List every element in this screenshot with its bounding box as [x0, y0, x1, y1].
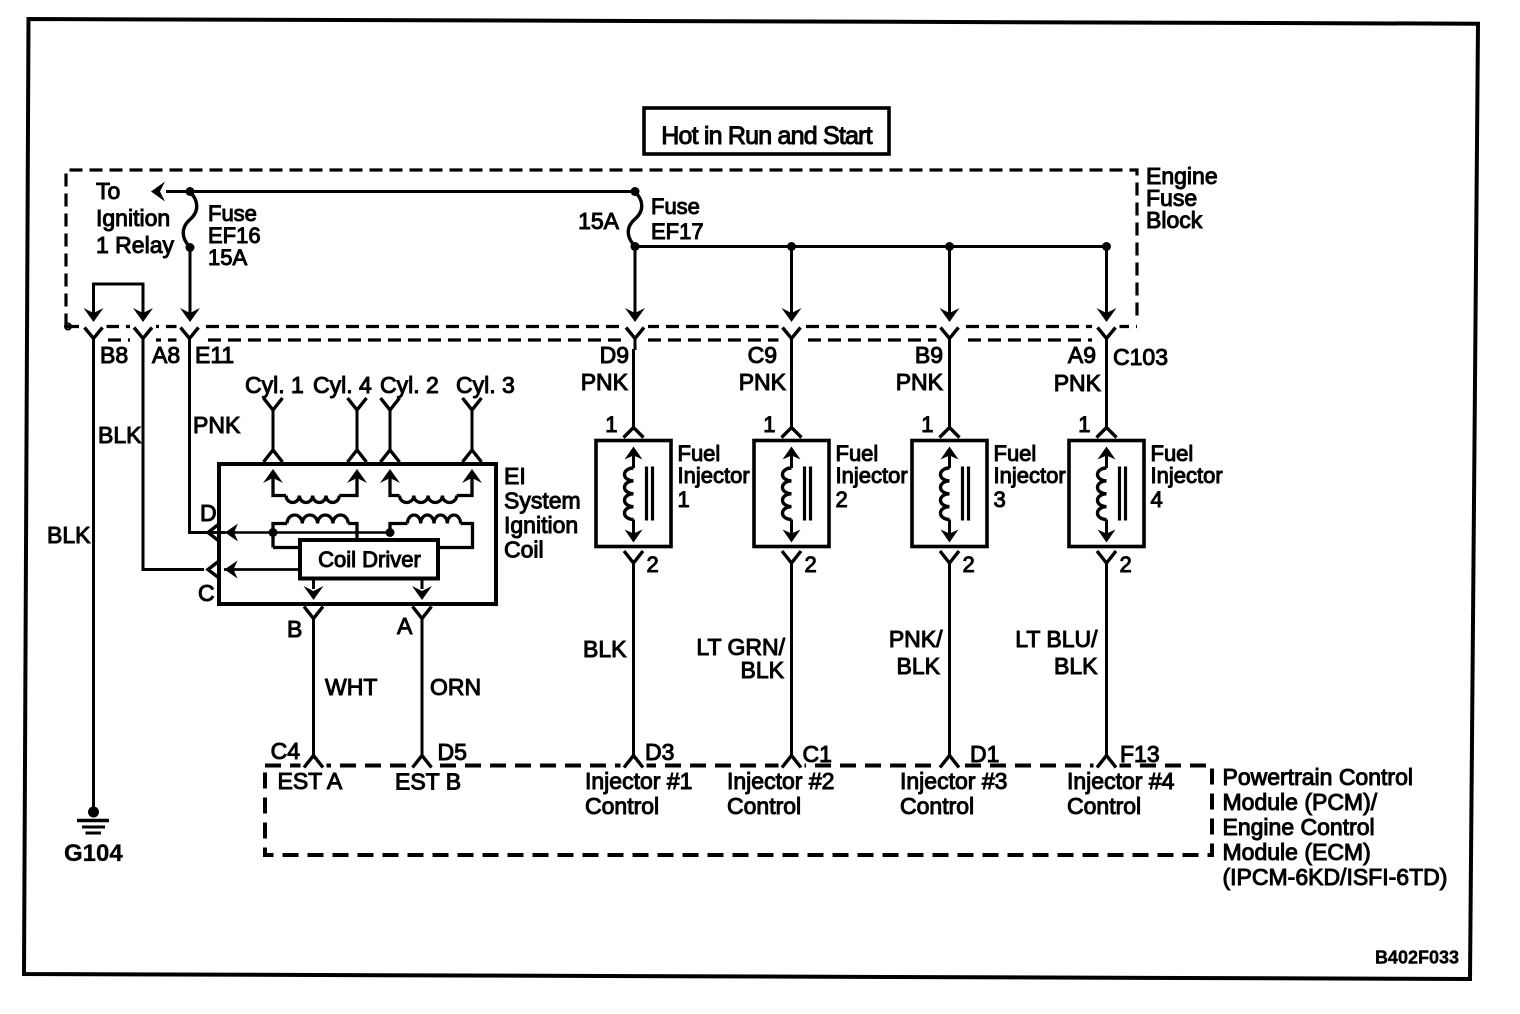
label Powertrain Control Module	[1223, 764, 1448, 890]
svg-text:B9: B9	[915, 342, 943, 368]
svg-text:Injector: Injector	[836, 463, 908, 488]
wire drop D9	[625, 247, 645, 323]
svg-text:Injector: Injector	[1151, 463, 1223, 488]
svg-text:Injector #2: Injector #2	[727, 768, 834, 794]
svg-text:LT BLU/: LT BLU/	[1015, 626, 1098, 652]
svg-text:Ignition: Ignition	[504, 512, 578, 538]
connector Cyl. 1	[264, 398, 283, 462]
svg-text:1: 1	[605, 412, 617, 437]
connector D1	[940, 756, 959, 768]
label Injector #2 Control	[727, 768, 834, 819]
wire coil driver output A	[412, 579, 432, 601]
svg-text:Cyl. 3: Cyl. 3	[456, 372, 515, 398]
svg-text:2: 2	[805, 552, 817, 577]
svg-text:Powertrain Control: Powertrain Control	[1223, 764, 1413, 790]
svg-text:Control: Control	[585, 793, 659, 819]
svg-text:C1: C1	[803, 741, 832, 767]
connector D5	[413, 756, 432, 768]
svg-text:D9: D9	[600, 342, 629, 368]
fuse EF17	[628, 187, 642, 251]
svg-text:Coil: Coil	[504, 537, 544, 563]
svg-text:EST A: EST A	[278, 768, 343, 794]
wire PNK to injector 3	[948, 349, 951, 428]
fuel injector 2	[754, 441, 829, 547]
svg-text:(IPCM-6KD/ISFI-6TD): (IPCM-6KD/ISFI-6TD)	[1223, 864, 1448, 890]
junction primary 1 tap	[269, 528, 278, 537]
wire PNK to injector 1	[632, 349, 635, 428]
svg-text:PNK: PNK	[1054, 370, 1102, 396]
svg-text:BLK: BLK	[1054, 653, 1098, 679]
svg-text:Injector #3: Injector #3	[900, 768, 1007, 794]
ground G104	[77, 807, 109, 834]
junction C9	[787, 242, 796, 251]
connector A9	[1098, 328, 1116, 351]
label Engine Fuse Block	[1146, 163, 1218, 233]
svg-text:Control: Control	[1067, 793, 1141, 819]
label EI System Ignition Coil	[504, 463, 581, 563]
svg-text:ORN: ORN	[430, 674, 481, 700]
svg-text:Injector: Injector	[994, 463, 1066, 488]
fuel injector 1	[596, 441, 671, 547]
svg-text:Control: Control	[727, 793, 801, 819]
svg-text:15A: 15A	[208, 245, 247, 270]
wire coil terminal D	[208, 524, 390, 542]
junction B9	[945, 242, 954, 251]
connector B9	[941, 328, 959, 351]
svg-text:2: 2	[647, 552, 659, 577]
svg-text:4: 4	[1151, 487, 1163, 512]
svg-text:15A: 15A	[578, 208, 620, 234]
connector row C103 dashed lines	[65, 324, 1137, 341]
engine fuse block outline	[66, 170, 1137, 327]
wire PNK to injector 4	[1105, 349, 1108, 428]
svg-text:G104: G104	[64, 840, 123, 867]
svg-text:Injector: Injector	[678, 463, 750, 488]
svg-text:C103: C103	[1113, 344, 1168, 370]
wire BLK from B8 to G104	[92, 349, 95, 807]
secondary winding cyl 1-4	[263, 469, 367, 496]
svg-text:B402F033: B402F033	[1375, 948, 1459, 968]
secondary winding cyl 2-3	[380, 469, 482, 496]
primary winding 1	[273, 524, 357, 548]
svg-text:2: 2	[963, 552, 975, 577]
svg-text:Control: Control	[900, 793, 974, 819]
svg-text:BLK: BLK	[583, 636, 627, 662]
svg-text:1: 1	[763, 412, 775, 437]
svg-text:D5: D5	[438, 739, 467, 765]
pin 1 connector injector 4	[1097, 428, 1117, 438]
fuel injector 4	[1069, 441, 1144, 547]
wire drop C9	[782, 247, 802, 323]
svg-text:EST B: EST B	[395, 769, 461, 795]
primary winding 2	[390, 524, 473, 548]
svg-text:C4: C4	[271, 738, 301, 764]
connector D3	[624, 756, 643, 768]
svg-text:A9: A9	[1068, 342, 1096, 368]
wire bracket to B8 and A8	[84, 284, 154, 322]
fuel injector 3	[912, 441, 987, 547]
svg-text:1: 1	[921, 412, 933, 437]
connector D9	[626, 328, 644, 351]
svg-text:Injector #1: Injector #1	[585, 768, 692, 794]
wire coil driver output B	[304, 579, 324, 601]
wire drop A9	[1097, 247, 1117, 323]
wire E11 feed	[180, 248, 200, 323]
label Fuel Injector 4	[1151, 441, 1223, 512]
wire injector 1 to D3	[632, 563, 635, 756]
junction A9	[1102, 242, 1111, 251]
svg-text:D: D	[200, 500, 217, 526]
connector Cyl. 2	[381, 398, 400, 462]
svg-text:Hot in Run and Start: Hot in Run and Start	[661, 122, 872, 150]
svg-text:Module (ECM): Module (ECM)	[1223, 839, 1371, 865]
svg-text:D1: D1	[970, 741, 999, 767]
wire injector 4 to F13	[1105, 563, 1108, 756]
title box Hot in Run and Start	[644, 108, 889, 154]
label Fuse EF16 15A	[208, 201, 261, 270]
wire drop B9	[940, 247, 960, 323]
connector F13	[1097, 756, 1116, 768]
svg-text:Fuse: Fuse	[651, 194, 700, 219]
svg-text:PNK: PNK	[896, 369, 944, 395]
svg-text:3: 3	[994, 487, 1006, 512]
wire ORN A to D5	[421, 619, 424, 756]
pin 2 connector injector 4	[1097, 551, 1116, 563]
svg-text:C: C	[198, 580, 215, 606]
label Injector #3 Control	[900, 768, 1007, 819]
EI system ignition coil block	[219, 464, 496, 604]
svg-text:PNK/: PNK/	[889, 626, 943, 652]
connector Cyl. 4	[348, 398, 367, 462]
label To Ignition 1 Relay	[96, 178, 174, 258]
connector E11	[181, 328, 199, 351]
pin 1 connector injector 2	[782, 428, 802, 438]
svg-text:BLK: BLK	[98, 422, 142, 448]
svg-text:A8: A8	[152, 342, 180, 368]
label Injector #1 Control	[585, 768, 692, 819]
svg-text:Coil Driver: Coil Driver	[318, 547, 421, 572]
svg-text:BLK: BLK	[741, 657, 785, 683]
svg-text:F13: F13	[1120, 741, 1160, 767]
svg-text:Engine Control: Engine Control	[1223, 814, 1375, 840]
coil driver box	[300, 540, 438, 579]
connector B	[304, 607, 323, 619]
svg-text:C9: C9	[748, 342, 777, 368]
svg-text:System: System	[504, 488, 581, 514]
svg-text:2: 2	[836, 487, 848, 512]
svg-text:Module (PCM)/: Module (PCM)/	[1223, 789, 1378, 815]
pin 2 connector injector 3	[940, 551, 959, 563]
wire to Ignition 1 Relay	[151, 182, 635, 202]
PCM/ECM module outline	[265, 766, 1212, 856]
wire injector supply bus	[635, 245, 1107, 248]
fuse EF16	[183, 187, 197, 252]
connector A	[413, 607, 432, 619]
connector C1	[782, 756, 801, 768]
svg-text:BLK: BLK	[47, 522, 91, 548]
wire coil terminal C	[208, 561, 300, 579]
svg-text:E11: E11	[195, 342, 234, 368]
svg-text:EI: EI	[504, 463, 526, 489]
svg-text:Cyl. 2: Cyl. 2	[380, 372, 439, 398]
label Fuse EF17	[651, 194, 704, 244]
svg-text:A: A	[397, 613, 413, 639]
svg-text:2: 2	[1120, 552, 1132, 577]
pin 2 connector injector 1	[624, 551, 643, 563]
svg-text:PNK: PNK	[193, 412, 241, 438]
label Injector #4 Control	[1067, 768, 1175, 819]
label PNK/BLK	[889, 626, 943, 679]
connector A8	[134, 328, 152, 351]
svg-text:1: 1	[1078, 412, 1090, 437]
svg-text:WHT: WHT	[325, 674, 377, 700]
wire BLK from A8 to coil C	[143, 349, 204, 570]
wire PNK from E11 to coil D	[190, 349, 226, 533]
wire PNK to injector 2	[790, 349, 793, 428]
svg-text:1: 1	[678, 487, 690, 512]
connector C4	[304, 756, 323, 768]
label LT BLU/BLK	[1015, 626, 1098, 679]
svg-text:BLK: BLK	[897, 653, 941, 679]
svg-text:B8: B8	[100, 342, 128, 368]
label Fuel Injector 1	[678, 441, 750, 512]
svg-text:Injector #4: Injector #4	[1067, 768, 1175, 794]
junction primary 2 tap	[386, 528, 395, 537]
wire WHT B to C4	[312, 619, 315, 756]
label LT GRN/BLK	[696, 634, 785, 683]
connector Cyl. 3	[463, 398, 482, 462]
svg-text:EF17: EF17	[651, 219, 704, 244]
svg-text:PNK: PNK	[739, 369, 787, 395]
pin 1 connector injector 1	[624, 428, 644, 438]
wire injector 2 to C1	[790, 563, 793, 756]
pin 1 connector injector 3	[940, 428, 960, 438]
pin 2 connector injector 2	[782, 551, 801, 563]
svg-text:1 Relay: 1 Relay	[96, 232, 174, 258]
label Fuel Injector 2	[836, 441, 908, 512]
svg-text:Cyl. 4: Cyl. 4	[313, 372, 372, 398]
svg-text:D3: D3	[645, 739, 674, 765]
svg-text:Block: Block	[1146, 207, 1203, 233]
svg-text:B: B	[287, 616, 302, 642]
label Fuel Injector 3	[994, 441, 1066, 512]
svg-text:To: To	[96, 178, 120, 204]
svg-text:PNK: PNK	[581, 369, 629, 395]
connector B8	[85, 328, 103, 351]
connector C9	[783, 328, 801, 351]
wire injector 3 to D1	[948, 563, 951, 756]
svg-text:Ignition: Ignition	[96, 205, 170, 231]
svg-text:Cyl. 1: Cyl. 1	[245, 372, 304, 398]
